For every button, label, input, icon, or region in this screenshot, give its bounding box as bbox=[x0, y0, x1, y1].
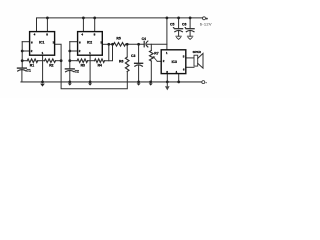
svg-text:C2: C2 bbox=[75, 69, 79, 73]
svg-text:R2: R2 bbox=[49, 64, 53, 68]
svg-text:-: - bbox=[206, 81, 207, 85]
svg-text:+: + bbox=[206, 17, 208, 21]
svg-text:R1: R1 bbox=[30, 64, 34, 68]
svg-text:IC1: IC1 bbox=[39, 40, 44, 44]
svg-text:C1: C1 bbox=[27, 68, 31, 72]
svg-text:R6: R6 bbox=[119, 59, 123, 63]
svg-text:+: + bbox=[184, 25, 186, 29]
svg-text:R7: R7 bbox=[154, 52, 158, 56]
svg-text:R3: R3 bbox=[81, 64, 85, 68]
svg-text:IC3: IC3 bbox=[172, 60, 177, 64]
svg-text:+: + bbox=[173, 25, 175, 29]
svg-text:IC2: IC2 bbox=[87, 40, 92, 44]
svg-text:R5: R5 bbox=[116, 37, 120, 41]
svg-text:6-12V: 6-12V bbox=[200, 21, 212, 26]
svg-text:R4: R4 bbox=[98, 64, 102, 68]
svg-text:C3: C3 bbox=[131, 54, 135, 58]
svg-text:SPKR: SPKR bbox=[193, 50, 202, 54]
svg-text:C4: C4 bbox=[142, 37, 146, 41]
